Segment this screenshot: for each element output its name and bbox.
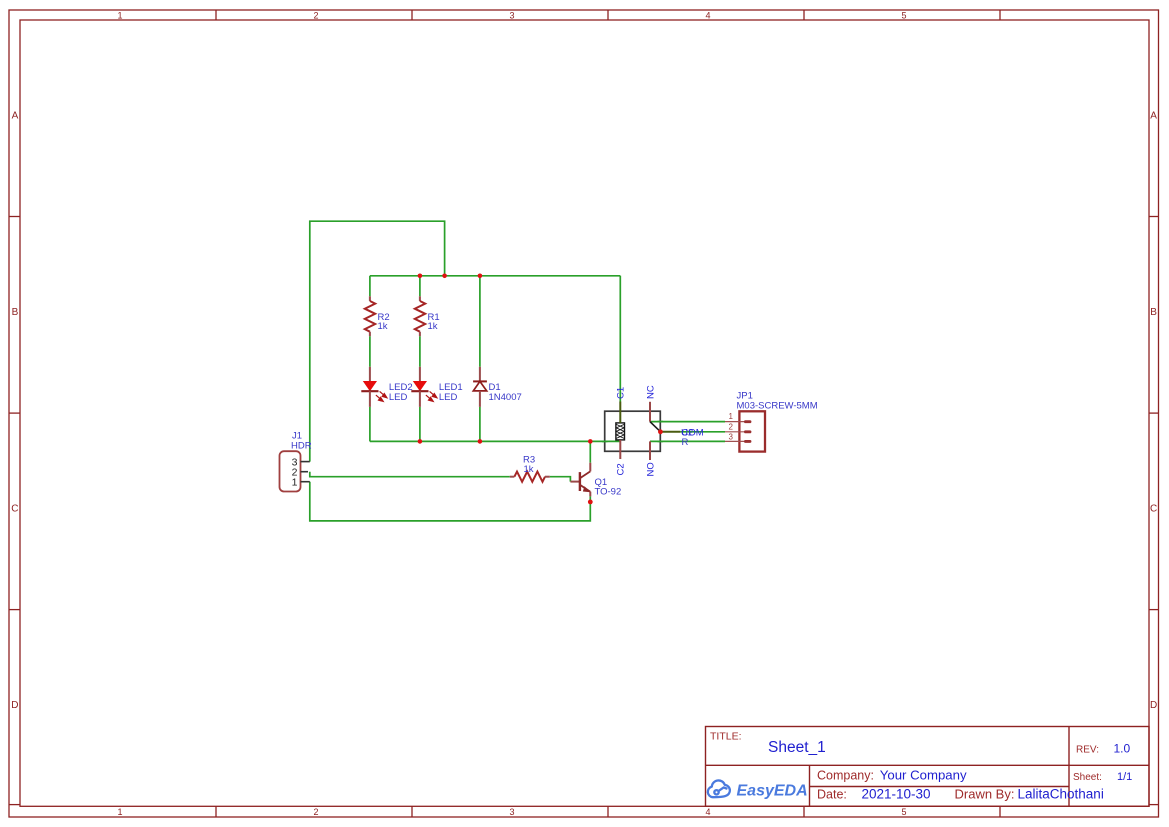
relay U2 xyxy=(602,402,680,461)
svg-text:TITLE:: TITLE: xyxy=(710,731,742,743)
svg-text:C: C xyxy=(1150,504,1157,515)
svg-text:HDR: HDR xyxy=(291,440,312,451)
transistor Q1 xyxy=(570,463,590,497)
EasyEDA logo xyxy=(708,780,730,797)
svg-text:1/1: 1/1 xyxy=(1117,771,1132,783)
resistor R3 xyxy=(510,472,550,482)
wire from J1 pin 2 to R3 xyxy=(310,472,510,477)
svg-text:M03-SCREW-5MM: M03-SCREW-5MM xyxy=(737,400,818,411)
wire relay NC to JP1 pin 1 xyxy=(650,421,725,423)
svg-text:1N4007: 1N4007 xyxy=(489,392,522,403)
wire D1 to bottom rail segment xyxy=(479,407,481,442)
svg-text:NO: NO xyxy=(646,462,657,476)
svg-text:TO-92: TO-92 xyxy=(595,487,622,498)
relay coil xyxy=(616,423,625,440)
svg-text:2021-10-30: 2021-10-30 xyxy=(862,787,931,802)
LED LED1 xyxy=(411,367,437,407)
svg-text:REV:: REV: xyxy=(1076,745,1099,756)
svg-text:Your Company: Your Company xyxy=(880,768,967,783)
junction on bottom rail at D1 xyxy=(478,439,483,444)
wire bottom horizontal rail to relay C2 xyxy=(370,440,620,442)
svg-text:2: 2 xyxy=(729,423,734,432)
svg-text:D: D xyxy=(1150,700,1157,711)
svg-text:B: B xyxy=(1150,307,1157,318)
svg-text:2: 2 xyxy=(313,10,318,20)
svg-text:1k: 1k xyxy=(378,321,388,332)
wire Q1 collector stub xyxy=(589,441,591,462)
svg-text:D: D xyxy=(11,700,18,711)
svg-text:B: B xyxy=(12,307,19,318)
wire from R3 to Q1 base xyxy=(550,477,571,482)
relay pin NO xyxy=(649,441,651,460)
wire relay COM to JP1 pin 2 xyxy=(680,431,725,433)
svg-text:Company:: Company: xyxy=(817,769,874,783)
svg-text:1k: 1k xyxy=(524,464,534,475)
wire overdraw crossing relay box edges xyxy=(602,422,663,442)
junction on top rail at R1 xyxy=(418,274,423,279)
svg-text:Sheet_1: Sheet_1 xyxy=(768,739,826,756)
svg-text:Date:: Date: xyxy=(817,788,847,802)
connector J1 xyxy=(280,451,310,491)
junction at relay COM xyxy=(658,429,663,434)
svg-text:Drawn By:: Drawn By: xyxy=(955,787,1015,802)
relay pin C2 xyxy=(619,440,621,459)
svg-text:LalitaChothani: LalitaChothani xyxy=(1018,787,1104,802)
svg-text:3: 3 xyxy=(729,433,734,442)
wire LED2 to bottom rail segment xyxy=(369,407,371,442)
svg-text:1: 1 xyxy=(117,807,122,817)
junction on bottom rail at LED1 xyxy=(418,439,423,444)
svg-text:EasyEDA: EasyEDA xyxy=(737,782,808,799)
svg-text:3: 3 xyxy=(509,10,514,20)
svg-text:5: 5 xyxy=(901,807,906,817)
wire R2 to LED2 segment xyxy=(369,336,371,367)
wire D1 column upper segment xyxy=(479,276,481,367)
svg-text:LED: LED xyxy=(389,392,408,403)
wire LED1 to bottom rail segment xyxy=(419,407,421,442)
svg-text:5: 5 xyxy=(901,10,906,20)
wire from J1 pin 3 up and across to top distribution node xyxy=(310,221,445,461)
svg-text:NC: NC xyxy=(646,385,657,399)
svg-text:R: R xyxy=(682,437,689,448)
JP1 pin numbers 1 2 3 xyxy=(729,412,734,441)
svg-text:4: 4 xyxy=(705,10,710,20)
relay pin C1 under wire xyxy=(619,402,621,423)
junction on top rail at D1 xyxy=(478,274,483,279)
relay pin COM under wire xyxy=(660,431,680,433)
svg-text:1: 1 xyxy=(117,10,122,20)
title block xyxy=(706,727,1150,807)
svg-text:1: 1 xyxy=(292,476,298,488)
svg-text:C2: C2 xyxy=(616,463,627,475)
svg-text:C1: C1 xyxy=(616,387,627,399)
wire R2 column upper segment xyxy=(369,276,371,297)
wire drop from top rail to relay coil C1 xyxy=(619,276,621,402)
svg-text:Sheet:: Sheet: xyxy=(1073,772,1102,783)
junction on top rail at feed drop xyxy=(442,274,447,279)
relay pin NC xyxy=(649,402,651,422)
svg-text:C: C xyxy=(11,504,18,515)
wire relay NO to JP1 pin 3 xyxy=(650,440,725,442)
svg-text:LED: LED xyxy=(439,392,458,403)
J1 pin numbers 3 2 1 xyxy=(292,456,298,488)
svg-text:A: A xyxy=(12,111,19,122)
svg-text:A: A xyxy=(1150,111,1157,122)
wire R1 column upper segment xyxy=(419,276,421,297)
junction on bottom rail at Q1 collector xyxy=(588,439,593,444)
svg-text:1: 1 xyxy=(729,412,734,421)
wire R1 to LED1 segment xyxy=(419,336,421,367)
svg-text:1k: 1k xyxy=(428,321,438,332)
connector JP1 xyxy=(725,411,765,451)
svg-text:3: 3 xyxy=(509,807,514,817)
svg-text:4: 4 xyxy=(705,807,710,817)
svg-text:2: 2 xyxy=(313,807,318,817)
relay switch lever xyxy=(650,422,660,432)
wire from J1 pin 1 along bottom to Q1 emitter xyxy=(310,482,591,521)
diode D1 xyxy=(473,367,487,407)
junction at Q1 emitter xyxy=(588,500,593,505)
svg-text:1.0: 1.0 xyxy=(1114,742,1131,756)
wire top horizontal rail xyxy=(370,275,620,277)
LED LED2 xyxy=(361,367,387,407)
resistor R2 xyxy=(365,296,375,336)
resistor R1 xyxy=(415,296,425,336)
